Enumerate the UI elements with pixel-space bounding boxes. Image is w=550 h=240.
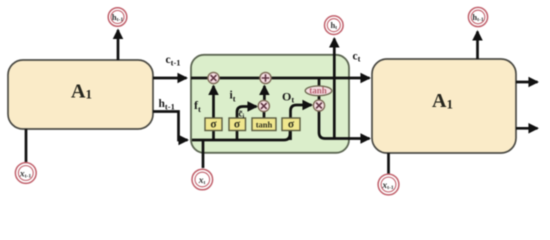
gate input bus wire [192, 130, 290, 140]
wire: multiply node 2 up to add node [263, 86, 266, 101]
svg-text:σ: σ [288, 119, 295, 131]
LSTM cell box [191, 55, 349, 153]
svg-text:tanh: tanh [256, 120, 273, 130]
node x(t-1) bottom-left [15, 163, 36, 184]
svg-text:tanh: tanh [309, 86, 327, 96]
add node [260, 72, 271, 83]
wire: right box output arrow lower [516, 127, 538, 130]
cell state line inside cell to right box [191, 77, 370, 80]
wire x(t) into bus [202, 140, 205, 168]
wire: x(t-1) up into left box [25, 129, 28, 162]
node h(t) top-middle [325, 16, 344, 35]
tanh box (candidate) [252, 118, 276, 131]
wire: tanh oval to multiply node 3 [318, 96, 321, 101]
svg-text:ct: ct [353, 51, 361, 64]
svg-text:σ: σ [210, 119, 217, 131]
node x(t-1) bottom-right [378, 174, 399, 195]
svg-text:ct-1: ct-1 [166, 54, 181, 68]
wire: cell line down to tanh oval [318, 78, 321, 87]
wire: right box output arrow upper [516, 81, 538, 84]
sigma box (input gate) [229, 118, 246, 131]
node h(t-1) top-left [108, 8, 127, 27]
wire: sigma o curve into multiply node 3 [291, 105, 312, 140]
left cell box A1 [8, 60, 153, 129]
wire h(t) up branch to node h(t) [333, 39, 336, 139]
wire: x(t-1) up into right box [387, 153, 390, 174]
svg-text:σ: σ [234, 119, 241, 131]
wire h(t): multiply node 3 down and right into right box [319, 110, 370, 139]
right cell box A1 [372, 59, 516, 153]
sigma box (forget gate) [205, 118, 222, 131]
wire: right box up to h(t-1) top-right [476, 32, 479, 60]
multiply node (forget) [208, 72, 219, 83]
wire h(t-1): left box elbow into LSTM cell [153, 112, 188, 141]
node h(t-1) top-right [468, 7, 487, 26]
node x(t) bottom-middle [192, 169, 213, 190]
multiply node 3 (output) [313, 100, 324, 111]
svg-text:ht-1: ht-1 [159, 98, 175, 112]
wire: left box up to h(t-1) [117, 30, 120, 60]
wire c(t-1): left box to LSTM cell [153, 77, 187, 80]
sigma box (output gate) [282, 118, 300, 131]
tanh oval [305, 86, 332, 96]
wire: sigma i curve into multiply node 2 [237, 107, 257, 141]
wire: tanh box up to multiply node 2 [263, 111, 266, 118]
multiply node 2 (input) [258, 100, 269, 111]
wire: sigma f up to multiply node [212, 86, 215, 140]
